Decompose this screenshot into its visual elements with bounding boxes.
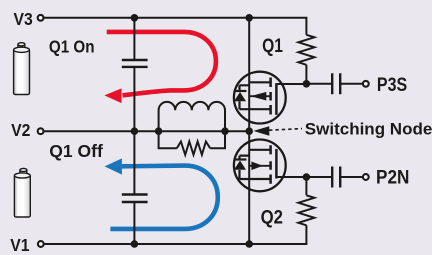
capacitor C1 (top cell capacitor) [122,60,148,67]
Q1 body diode triangle [234,92,246,101]
Q1 body diode branch [240,85,250,109]
wire: P3S junction to capacitor [306,65,362,84]
terminal V2 [38,128,44,134]
terminal V1 [38,241,44,247]
Q2 body diode branch [240,156,250,179]
junction dot top rail / cap branch [131,14,139,22]
Q2 drain connect [249,149,270,151]
red arrowhead [104,88,121,103]
terminal V3 [38,15,44,21]
terminal P3S [363,81,369,87]
junction dot bottom rail / Q2 source [245,240,253,248]
Q1 channel segments [269,78,272,115]
svg-text:V2: V2 [11,120,30,140]
wire: top rail V3 [44,18,306,35]
junction dot switching node [245,127,253,135]
MOSFET Q2 body circle [234,140,286,192]
battery cell B1 (bottom-left battery) [14,168,30,217]
junction dot V2 rail / cap branch [131,127,139,135]
terminal P2N [363,174,369,180]
Q2 body diode cathode bar [234,158,247,160]
Q1 gate wire to P3S junction [276,83,306,85]
svg-text:P2N: P2N [376,165,409,187]
red current loop (Q1 On) [107,32,216,96]
junction dot P3S node [303,80,311,88]
svg-text:V1: V1 [10,235,29,255]
svg-text:Q2: Q2 [261,206,283,227]
MOSFET Q1 body circle [234,72,286,124]
MOSFET Q1 internals [234,78,307,115]
wire: capacitor branch vertical bottom [133,203,135,244]
Q1 gate bar [275,83,278,115]
Q2 gate bar [275,149,278,179]
junction dot LR left node [155,127,163,135]
wire: bottom rail V1 [44,225,306,244]
Q1 body diode cathode bar [234,90,247,92]
svg-text:P3S: P3S [377,73,407,95]
blue arrowhead [105,158,122,174]
svg-text:Q1: Q1 [262,34,283,56]
Q1 source connect [240,108,271,110]
junction dot top rail / Q1 drain [245,14,253,22]
Q2 channel segments [269,145,272,184]
Q2 source connect [240,178,271,180]
Q1 bulk arrow head (points left) [251,92,267,101]
dashed callout arrow to switching node [253,126,302,136]
inductor L1 (parallel LR top branch) [159,102,225,131]
capacitor C3 (P3S coupling cap) [332,73,340,94]
Q2 bulk arrow head (points right) [251,162,263,171]
capacitor C4 (P2N coupling cap) [332,167,340,188]
junction dot LR right node [221,127,229,135]
svg-text:Q1 On: Q1 On [49,38,95,57]
junction dot P2N node [303,173,311,181]
resistor R-bottom (gate resistor Q2) [298,195,314,225]
wire: middle rail V2 to switching node [44,130,249,132]
svg-text:Switching Node: Switching Node [305,120,432,139]
Q2 gate wire to P2N junction [276,176,306,178]
Q2 body diode triangle [234,161,246,170]
battery cell B2 (top-left battery) [14,43,30,95]
resistor R2 (parallel LR bottom branch) [159,131,225,155]
MOSFET Q2 internals [234,145,307,184]
capacitor C2 (bottom cell capacitor) [122,195,148,203]
blue current loop (Q1 Off) [110,166,217,229]
Q1 drain connect [249,81,270,83]
wire: P2N junction to capacitor [306,177,362,195]
resistor R-top (gate resistor Q1) [298,35,314,65]
wire: capacitor branch vertical top [133,18,135,59]
svg-text:V3: V3 [14,9,33,29]
svg-text:Q1 Off: Q1 Off [49,141,103,161]
Q2 bulk arrow line [250,165,271,167]
junction dot bottom rail / cap branch [131,240,139,248]
wire: main vertical Q1/Q2 drain-source column [248,18,250,244]
Q1 bulk arrow line [250,95,271,97]
wire: capacitor branch vertical middle [133,68,135,194]
